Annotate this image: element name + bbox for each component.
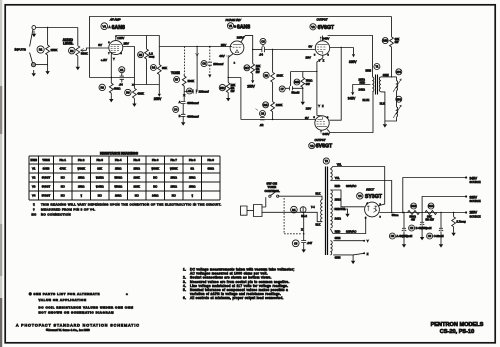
wire: plate line to C6: [253, 49, 262, 51]
svg-text:➊ SEE PARTS LIST FOR ALTERNATE: ➊ SEE PARTS LIST FOR ALTERNATE: [28, 292, 100, 296]
svg-text:†500Ω: †500Ω: [114, 176, 122, 180]
node: input jack J2 bottom: [31, 63, 35, 67]
svg-text:NC: NC: [135, 193, 139, 197]
svg-text:V2: V2: [32, 176, 36, 180]
svg-text:100K: 100K: [276, 103, 283, 107]
wire: cathode bus down: [317, 55, 323, 115]
svg-text:100K: 100K: [277, 73, 284, 77]
svg-text:330VAC: 330VAC: [346, 184, 356, 188]
svg-text:A-40(350)mfd: A-40(350)mfd: [396, 234, 412, 238]
wire: screen line to R5: [116, 36, 160, 47]
svg-text:250Ω: 250Ω: [78, 176, 85, 180]
svg-text:240Ω: 240Ω: [359, 87, 365, 91]
svg-text:255V: 255V: [247, 84, 255, 88]
svg-text:VALUE OR APPLICATION: VALUE OR APPLICATION: [39, 298, 87, 302]
svg-text:CS-20, PS-10: CS-20, PS-10: [440, 329, 475, 335]
svg-text:R7: R7: [175, 78, 179, 82]
svg-text:SP2: SP2: [397, 98, 402, 101]
T1 secondary coil: [379, 77, 380, 92]
resistor R9 100K: [263, 72, 269, 78]
tube V3: [315, 116, 329, 130]
svg-text:R12: R12: [220, 87, 225, 90]
resistor R4 98K: [150, 65, 156, 71]
svg-text:x: x: [132, 83, 134, 87]
svg-text:250Ω: 250Ω: [189, 185, 196, 189]
335V riser: [422, 197, 466, 213]
T2 5V winding YEL: [330, 169, 332, 180]
svg-text:100mmf: 100mmf: [213, 62, 223, 66]
svg-text:Pin 4: Pin 4: [115, 158, 122, 162]
electrolytic C9C 20mfd: [440, 213, 442, 229]
wire: wiper to V1A grid: [81, 48, 109, 50]
svg-text:V3: V3: [32, 185, 36, 189]
svg-text:A: A: [109, 25, 111, 29]
svg-text:Pin 2: Pin 2: [78, 158, 85, 162]
svg-text:140Ω: 140Ω: [152, 193, 159, 197]
svg-text:†345Ω: †345Ω: [96, 185, 104, 189]
svg-text:6AN8: 6AN8: [112, 25, 125, 31]
B+ top rail: [90, 17, 392, 49]
svg-text:All controls at minimum, prope: All controls at minimum, proper output l…: [190, 296, 284, 300]
svg-text:©Howard W. Sams & Co., Inc 195: ©Howard W. Sams & Co., Inc 1959: [46, 328, 90, 332]
svg-text:V1: V1: [32, 167, 36, 171]
wire: V3 grid line: [241, 119, 315, 121]
svg-text:meg: meg: [149, 54, 155, 58]
svg-text:480K: 480K: [137, 92, 144, 96]
svg-text:C7: C7: [281, 88, 285, 91]
potentiometer R2 500K: [69, 47, 76, 54]
svg-text:Y: Y: [318, 104, 320, 108]
svg-text:M1: M1: [292, 208, 296, 212]
left edge wire: [89, 48, 91, 78]
svg-text:1W: 1W: [256, 70, 260, 74]
svg-text:250Ω: 250Ω: [189, 176, 196, 180]
wire: C6 to V2 grid: [265, 49, 316, 51]
svg-text:345V: 345V: [348, 96, 356, 100]
wire: screen 335V stub: [330, 48, 354, 51]
svg-text:SOURCE: SOURCE: [470, 180, 481, 184]
svg-text:6AN8: 6AN8: [237, 24, 250, 30]
svg-text:4W: 4W: [411, 218, 415, 222]
svg-text:8: 8: [121, 53, 123, 55]
voltage 125V: [115, 35, 117, 38]
T1 core: [376, 75, 378, 95]
ground under R6: [132, 100, 136, 107]
svg-text:R2: R2: [70, 49, 74, 53]
cathode network wires: [291, 72, 317, 87]
svg-text:5: 5: [314, 117, 316, 119]
svg-text:250Ω: 250Ω: [170, 176, 177, 180]
table footnotes: [32, 203, 222, 217]
svg-text:R6: R6: [126, 91, 130, 95]
svg-text:AF AMP: AF AMP: [109, 18, 121, 22]
capacitor C6 .04: [260, 38, 266, 44]
electrolytic C9B 40(350)mfd: [421, 213, 423, 223]
svg-text:x: x: [301, 228, 303, 232]
svg-text:.02: .02: [260, 123, 264, 127]
svg-text:RECT: RECT: [366, 187, 374, 191]
ground under C4: [181, 119, 185, 126]
svg-text:7-4: 7-4: [311, 206, 315, 209]
svg-text:6V6GT: 6V6GT: [316, 144, 333, 150]
svg-text:T2: T2: [325, 159, 329, 163]
svg-text:C9: C9: [428, 235, 432, 238]
svg-text:290Ω: 290Ω: [115, 193, 122, 197]
svg-text:100K: 100K: [134, 176, 140, 180]
svg-text:25V: 25V: [124, 42, 129, 46]
svg-text:NC: NC: [172, 193, 176, 197]
heater leads Y Z: [333, 240, 364, 242]
motor receptacle M1: [291, 206, 298, 213]
svg-text:8: 8: [328, 54, 330, 56]
svg-text:NC: NC: [98, 193, 102, 197]
svg-text:0V: 0V: [309, 45, 313, 49]
svg-text:NO CONNECTION: NO CONNECTION: [41, 213, 71, 217]
svg-text:NC: NC: [153, 176, 157, 180]
ground under jack J1: [32, 31, 36, 38]
T2 HV winding: [330, 190, 332, 228]
svg-text:Y: Y: [113, 57, 115, 61]
svg-text:V2: V2: [311, 25, 315, 29]
svg-text:200Ω: 200Ω: [335, 198, 341, 202]
svg-text:250K: 250K: [51, 48, 58, 52]
svg-text:6W: 6W: [306, 82, 311, 86]
svg-text:BLK: BLK: [316, 192, 321, 196]
svg-text:C1: C1: [120, 68, 124, 72]
svg-text:M1-2: M1-2: [301, 215, 307, 218]
svg-text:4000mmf: 4000mmf: [187, 114, 199, 118]
svg-text:Pin 5: Pin 5: [133, 158, 140, 162]
svg-text:6V6GT: 6V6GT: [42, 185, 51, 189]
svg-text:TONE: TONE: [171, 71, 180, 75]
capacitor C7 50mfd: [279, 86, 285, 92]
svg-text:V3: V3: [310, 144, 314, 148]
tube V1A: [109, 41, 123, 55]
svg-text:B: B: [179, 114, 181, 118]
svg-text:0Ω: 0Ω: [190, 167, 194, 171]
svg-text:.04: .04: [259, 53, 263, 57]
ground on return: [383, 121, 387, 128]
svg-text:1W: 1W: [395, 40, 399, 44]
svg-text:SOURCE: SOURCE: [470, 214, 481, 218]
T2 6.3V winding GRN: [330, 241, 332, 255]
interlock plug M1: [241, 206, 248, 215]
ground under R15: [301, 99, 305, 106]
svg-text:90ma: 90ma: [392, 213, 399, 217]
resistor R17 10K 5% 1W plate load: [244, 65, 250, 71]
resistor R1 250K: [37, 46, 44, 53]
resistor R10 62K 1W feedback: [391, 17, 393, 37]
B+ arrow 255V: [251, 76, 254, 83]
wire: grid entering: [314, 120, 316, 122]
svg-text:480Ω: 480Ω: [114, 86, 121, 90]
svg-text:345V: 345V: [470, 176, 478, 180]
scan edge strip left: [0, 0, 2, 347]
resistor R6 480K: [125, 89, 131, 95]
svg-text:2.7meg: 2.7meg: [456, 220, 466, 224]
svg-text:8: 8: [327, 117, 329, 119]
svg-text:1W: 1W: [231, 89, 235, 93]
T2 primary coil: [321, 199, 323, 221]
ground under R12: [226, 95, 230, 102]
svg-text:1.: 1.: [183, 268, 186, 272]
svg-text:250Ω: 250Ω: [78, 185, 85, 189]
svg-text:¶450K: ¶450K: [170, 167, 178, 171]
wire: YEL top to V4 pin2: [330, 167, 384, 206]
capacitor C8 .047 line bypass: [292, 240, 299, 247]
svg-text:C9: C9: [391, 235, 395, 238]
resistor R14 39K: [428, 203, 434, 209]
svg-text:140Ω: 140Ω: [335, 217, 341, 221]
node: input jack J1 top: [32, 26, 36, 30]
wire: coupling line to V1B grid: [159, 46, 232, 48]
tube V4: [365, 202, 380, 217]
capacitor C3 100mmf dashed branch: [209, 47, 211, 75]
svg-text:Pin 6: Pin 6: [152, 158, 159, 162]
svg-text:SP1: SP1: [397, 71, 402, 74]
svg-text:250Ω: 250Ω: [170, 185, 177, 189]
svg-text:V4: V4: [32, 193, 36, 197]
svg-text:BLK: BLK: [316, 223, 321, 227]
svg-text:†500Ω: †500Ω: [114, 185, 122, 189]
resistor R13 500ohm 4W: [411, 203, 417, 209]
wire: plate to T1: [323, 36, 373, 77]
svg-text:OUTPUT: OUTPUT: [317, 18, 328, 22]
svg-text:OUTPUT: OUTPUT: [315, 138, 326, 142]
resistor R3 480 ohm: [99, 84, 105, 90]
svg-text:NOT SHOWN ON SCHEMATIC DIAGRAM: NOT SHOWN ON SCHEMATIC DIAGRAM: [39, 310, 115, 314]
svg-text:50mfd: 50mfd: [292, 91, 300, 95]
svg-text:R1: R1: [39, 48, 43, 52]
potentiometer R7 500K: [174, 77, 180, 83]
speaker SP2: [396, 96, 402, 102]
svg-text:315VAC: 315VAC: [346, 229, 356, 233]
svg-text:C8: C8: [294, 242, 298, 245]
ground under R3: [109, 96, 113, 103]
svg-text:¶: ¶: [80, 193, 82, 197]
svg-text:MEASURED FROM PIN 8 OF V4.: MEASURED FROM PIN 8 OF V4.: [41, 208, 96, 212]
svg-text:5.: 5.: [183, 288, 186, 292]
switch SW1: [265, 197, 267, 207]
svg-text:Pin 8: Pin 8: [189, 158, 196, 162]
345V riser: [403, 178, 466, 213]
label V1 A 6AN8: [101, 23, 108, 30]
svg-text:LEVEL: LEVEL: [63, 42, 73, 46]
svg-text:2: 2: [234, 62, 236, 64]
svg-text:ITEM: ITEM: [30, 158, 37, 162]
svg-text:5Y3GT: 5Y3GT: [42, 193, 51, 197]
svg-text:98K: 98K: [162, 66, 167, 70]
svg-text:6AN8: 6AN8: [43, 167, 50, 171]
label V2 6V6GT: [310, 24, 316, 30]
svg-text:CONTROL: CONTROL: [265, 189, 280, 193]
wire: bottom bus: [134, 84, 159, 86]
svg-text:500K: 500K: [188, 79, 195, 83]
tube V2: [315, 41, 329, 55]
wire: line bypass branch: [303, 212, 305, 240]
svg-text:40V: 40V: [219, 54, 224, 58]
T1 primary coil: [372, 77, 373, 92]
svg-text:NC: NC: [61, 176, 65, 180]
wire: to primary bottom: [304, 212, 322, 221]
svg-text:R3: R3: [101, 86, 105, 90]
svg-text:YEL: YEL: [335, 176, 340, 180]
svg-text:5% 1W: 5% 1W: [426, 218, 435, 222]
svg-text:25V: 25V: [221, 43, 226, 47]
wire: cathode chain: [228, 54, 241, 120]
svg-text:R13: R13: [411, 205, 416, 208]
svg-text:470K: 470K: [60, 167, 66, 171]
wire: HV top to plate pin4: [330, 190, 364, 207]
svg-text:A: A: [179, 100, 181, 104]
svg-text:NC: NC: [153, 185, 157, 189]
svg-text:V1: V1: [229, 24, 233, 28]
wire: secondary to speakers: [381, 76, 397, 78]
svg-text:C2: C2: [261, 113, 265, 116]
wire: V3 plate to T1 bottom: [327, 92, 373, 133]
svg-text:C3: C3: [202, 62, 206, 66]
svg-text:¶400K: ¶400K: [151, 167, 159, 171]
svg-text:Z: Z: [367, 252, 369, 256]
tube V1B: [230, 41, 244, 55]
svg-text:R5: R5: [139, 53, 143, 57]
svg-text:R10: R10: [383, 40, 388, 43]
resistor bleeder 2.7 meg: [453, 213, 455, 217]
svg-text:C-20mfd: C-20mfd: [434, 234, 445, 238]
wire: YEL bottom to B+: [330, 181, 391, 213]
svg-text:†: †: [33, 208, 35, 212]
svg-text:6V6GT: 6V6GT: [42, 176, 51, 180]
wire: switch to T2 primary: [279, 196, 322, 199]
svg-text:YEL: YEL: [337, 162, 342, 166]
wire: drop to tone: [196, 47, 198, 92]
svg-text:PHASE INV: PHASE INV: [226, 18, 242, 22]
svg-text:x: x: [183, 93, 185, 97]
svg-text:0V: 0V: [98, 43, 102, 47]
svg-text:¶: ¶: [33, 203, 35, 207]
svg-text:6V6GT: 6V6GT: [318, 25, 335, 31]
speaker SP1: [396, 69, 402, 75]
svg-text:335V: 335V: [349, 60, 357, 64]
svg-text:Z: Z: [322, 104, 324, 108]
svg-text:BLK: BLK: [380, 101, 385, 105]
svg-text:R4: R4: [152, 66, 156, 70]
svg-text:RED: RED: [335, 229, 341, 233]
svg-text:INPUTS: INPUTS: [15, 48, 26, 52]
svg-text:RED: RED: [335, 184, 341, 188]
svg-text:Pin 1: Pin 1: [59, 158, 66, 162]
label V1 B 6AN8: [227, 23, 233, 29]
svg-text:+.5V: +.5V: [101, 58, 107, 62]
svg-text:Pin 9: Pin 9: [207, 158, 214, 162]
svg-text:5: 5: [314, 54, 316, 56]
svg-text:255V: 255V: [154, 97, 162, 101]
resistor R5 1.2 meg: [138, 52, 144, 58]
svg-text:T1: T1: [375, 66, 379, 69]
dashed gang link: [284, 198, 302, 234]
transformer T2 designator: [323, 158, 329, 164]
svg-text:R11: R11: [263, 104, 268, 107]
capacitor C2 .02: [260, 111, 266, 117]
dashed link to pot: [184, 47, 186, 75]
HV center tap ground: [334, 209, 348, 211]
svg-text:¶400K: ¶400K: [77, 167, 85, 171]
svg-text:¶: ¶: [191, 193, 193, 197]
svg-text:R15: R15: [295, 81, 300, 84]
255V terminal: [465, 211, 467, 213]
svg-text:V1: V1: [102, 25, 106, 29]
resistor R12 10K 5% 1W cathode: [219, 84, 225, 90]
wire: top jack to pot: [36, 27, 78, 29]
345V center tap arrow: [353, 85, 371, 89]
svg-text:4000mmf: 4000mmf: [187, 101, 199, 105]
svg-text:680Ω: 680Ω: [207, 167, 214, 171]
svg-text:Pin 7: Pin 7: [170, 158, 177, 162]
svg-text:BLUE: BLUE: [363, 98, 370, 102]
resistor R15 750ohm 6W: [294, 79, 300, 85]
ground under jack J2: [32, 70, 36, 77]
svg-text:335V: 335V: [470, 195, 478, 199]
svg-text:8: 8: [380, 216, 382, 218]
svg-text:BRN: BRN: [366, 69, 372, 73]
svg-text:39K: 39K: [97, 167, 102, 171]
svg-text:6.: 6.: [183, 296, 186, 300]
svg-text:R14: R14: [429, 205, 434, 208]
wire: jack diagonals: [30, 29, 33, 63]
svg-text:R9: R9: [265, 74, 269, 77]
svg-text:125V: 125V: [117, 36, 124, 40]
svg-text:V4: V4: [358, 194, 362, 198]
resistor R11 100K: [263, 102, 269, 108]
svg-text:340V: 340V: [323, 132, 330, 136]
wire: secondary bottom return: [381, 92, 397, 121]
wire: HV bottom to plate pin6: [330, 217, 365, 234]
svg-text:PENTRON MODELS: PENTRON MODELS: [431, 322, 484, 328]
svg-text:C6: C6: [261, 40, 265, 44]
svg-text:250Ω: 250Ω: [115, 167, 122, 171]
svg-text:B-40(350)mfd: B-40(350)mfd: [416, 226, 432, 230]
wire: plate line: [123, 47, 135, 89]
svg-text:+: +: [126, 292, 128, 296]
electrolytic C9A 40(350)mfd: [403, 213, 405, 229]
svg-text:20V: 20V: [306, 106, 311, 110]
svg-text:100K: 100K: [134, 185, 140, 189]
svg-text:7: 7: [108, 53, 110, 55]
B+ output line: [379, 212, 466, 214]
capacitor C5 220mmf: [187, 88, 193, 94]
svg-text:SY3GT: SY3GT: [365, 194, 383, 200]
svg-text:20V: 20V: [306, 56, 311, 60]
wire: plate down: [241, 36, 253, 64]
svg-text:NC: NC: [61, 193, 65, 197]
svg-text:Y: Y: [367, 239, 369, 243]
wire: cathode bus: [90, 77, 135, 79]
transformer T1: [374, 64, 380, 70]
svg-text:GRN: GRN: [335, 236, 341, 240]
svg-text:500K: 500K: [81, 52, 88, 56]
svg-text:Z: Z: [323, 58, 325, 62]
svg-text:.047: .047: [307, 241, 313, 245]
svg-text:†225Ω: †225Ω: [96, 176, 104, 180]
capacitor C1 .04: [119, 67, 125, 73]
svg-text:THIS READING WILL VARY DEPENDI: THIS READING WILL VARY DEPENDING UPON TH…: [41, 203, 222, 207]
svg-text:C4: C4: [174, 108, 178, 112]
power transformer T2 core: [326, 167, 328, 256]
svg-text:TUBE: TUBE: [42, 158, 50, 162]
svg-text:NC: NC: [61, 185, 65, 189]
svg-text:220mmf: 220mmf: [199, 89, 209, 93]
svg-text:255V: 255V: [470, 211, 478, 215]
